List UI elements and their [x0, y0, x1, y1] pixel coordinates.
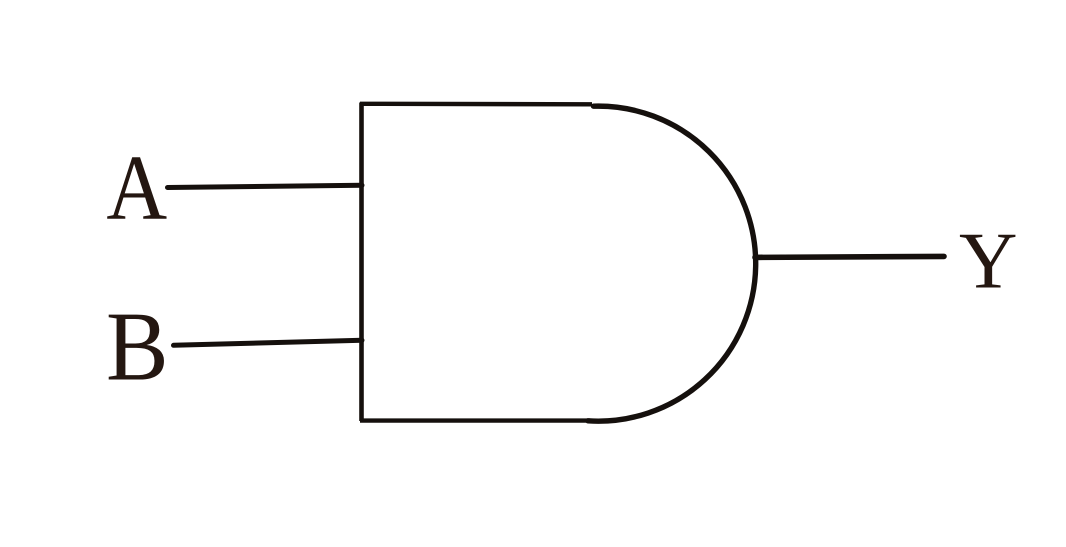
AND gate U1 curved front	[588, 106, 756, 421]
svg-text:B: B	[106, 291, 169, 401]
AND gate U1 left side	[359, 103, 364, 422]
wire input A	[168, 185, 363, 187]
wire output Y	[755, 256, 944, 257]
svg-text:A: A	[106, 137, 167, 240]
svg-text:Y: Y	[959, 216, 1018, 306]
input label B	[106, 291, 169, 401]
AND gate U1 top side	[360, 102, 592, 107]
wire input B	[174, 340, 363, 345]
AND gate U1 bottom side	[360, 418, 590, 422]
input label A	[106, 137, 167, 240]
